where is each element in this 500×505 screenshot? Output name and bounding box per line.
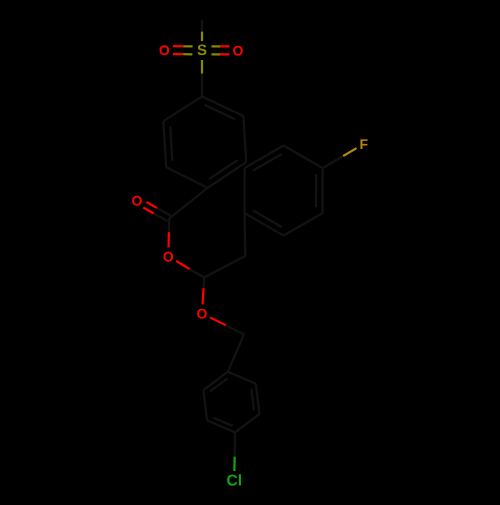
ring2 inner 4 [253,154,282,171]
ring3 edge 2 [235,414,259,432]
ring2 edge 2 [245,213,284,236]
bond CH-CH2 [204,256,245,278]
bond S-ring1 half-B [201,74,203,97]
C=O carbonyl line1 half-B [146,202,157,208]
ring2 edge 4 [245,146,284,169]
ring3 inner 1 [251,389,254,410]
ring3 edge 1 [256,384,260,414]
S=O right line1 half-A [212,53,221,55]
ring1 edge 3 [166,167,208,188]
S=O right line1 half-B [220,53,230,55]
bond C-Oester half-A [168,219,171,233]
ring2 inner 0 [315,174,317,207]
bond ring2-F half-B [343,148,356,156]
S=O left line1 half-B [173,45,183,47]
bond Oester-CH half-B [190,269,204,277]
ring2 edge 0 [321,168,323,213]
svg-text:O: O [197,305,208,321]
S=O left line-1 half-B [173,53,183,55]
bond CH3-S half-B [201,32,203,41]
ring2 edge 3 [243,168,245,213]
ring2 edge 5 [284,146,323,169]
bond CH-Oether half-A [202,278,205,289]
bond ring2-F half-A [323,156,344,168]
ring2 inner 2 [253,210,282,227]
bond C-Oester half-B [167,232,170,247]
ring3 edge 4 [203,390,207,420]
ring1 inner 0 [205,105,236,119]
svg-text:F: F [360,136,369,152]
ring1 inner 4 [170,127,172,161]
bond Oether-CH2benzyl half-A [210,317,226,325]
svg-text:O: O [159,42,170,58]
ring1 edge 5 [163,97,202,122]
bond Oether-CH2benzyl half-B [226,325,244,334]
S=O right line-1 half-A [212,45,221,47]
ring2 edge 1 [284,213,323,235]
svg-text:S: S [197,42,207,59]
bond CH-Oether half-B [202,288,205,304]
S=O left line1 half-A [183,45,192,47]
C=O carbonyl line-1 half-A [154,214,168,222]
bond ring1-carbonylC [169,188,208,219]
svg-text:Cl: Cl [227,473,243,490]
bond ring3-Cl half-A [234,432,237,456]
svg-text:O: O [132,192,143,208]
S=O right line-1 half-B [220,45,230,47]
ring3 inner 3 [213,418,233,426]
ring1 inner 2 [209,160,238,179]
ring1 edge 4 [163,121,166,167]
S=O left line-1 half-A [183,53,192,55]
bond ring3-Cl half-B [233,457,236,471]
bond S-ring1 half-A [201,60,203,74]
ring3 edge 0 [228,372,256,384]
svg-text:O: O [163,249,174,265]
ring1 edge 0 [202,97,243,117]
bond Oester-CH half-A [176,261,190,269]
C=O carbonyl line-1 half-B [143,208,154,214]
bond CH2benzyl-ring3 [228,334,244,372]
ring1 edge 1 [243,116,246,162]
C=O carbonyl line1 half-A [157,208,171,216]
svg-text:O: O [233,42,244,58]
bond CH2-ring2 [243,213,246,256]
ring3 edge 3 [207,420,235,432]
ring3 edge 5 [203,372,227,390]
ring1 edge 2 [208,162,247,188]
ring3 inner 5 [210,379,227,392]
bond CH3-S half-A [201,20,203,32]
